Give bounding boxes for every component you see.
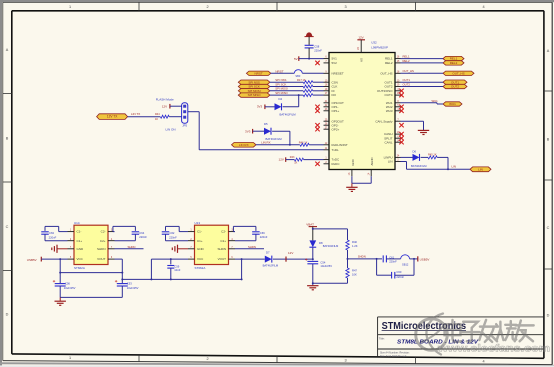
svg-text:C62: C62 — [170, 231, 175, 235]
svg-text:USB5V: USB5V — [27, 258, 37, 262]
svg-text:GND: GND — [351, 159, 355, 165]
svg-text:GND: GND — [197, 247, 205, 251]
svg-text:C59: C59 — [174, 264, 179, 268]
svg-text:SB12: SB12 — [402, 262, 409, 266]
svg-text:CAN_Supply: CAN_Supply — [375, 119, 393, 123]
svg-text:OUT_HS: OUT_HS — [452, 71, 464, 75]
svg-text:ST662A: ST662A — [74, 266, 85, 270]
svg-text:U32: U32 — [371, 41, 377, 45]
svg-text:L99PM62XP: L99PM62XP — [371, 45, 388, 49]
svg-text:C60: C60 — [396, 270, 401, 274]
svg-text:NRESET: NRESET — [332, 71, 344, 75]
svg-text:FLASH Mode: FLASH Mode — [156, 98, 174, 102]
svg-text:B: B — [547, 138, 550, 142]
svg-text:LIN: LIN — [478, 167, 483, 171]
svg-text:U14: U14 — [74, 221, 80, 225]
svg-text:A: A — [6, 48, 9, 52]
svg-text:C2-: C2- — [221, 230, 226, 234]
svg-text:2: 2 — [206, 5, 208, 9]
svg-text:ST662A: ST662A — [195, 266, 206, 270]
svg-text:C: C — [547, 226, 550, 230]
svg-text:C54: C54 — [320, 260, 325, 264]
svg-text:JP5: JP5 — [182, 123, 187, 127]
svg-text:5V2: 5V2 — [332, 61, 338, 65]
svg-text:4: 4 — [482, 359, 484, 363]
svg-text:WU1: WU1 — [449, 102, 456, 106]
svg-text:SHDN: SHDN — [128, 245, 136, 249]
svg-text:OUT2: OUT2 — [403, 82, 411, 86]
svg-text:OUT_HS: OUT_HS — [380, 71, 392, 75]
svg-text:B: B — [6, 137, 9, 141]
svg-text:1: 1 — [69, 5, 71, 9]
svg-text:USB5V: USB5V — [420, 257, 430, 261]
svg-text:220nF: 220nF — [314, 48, 322, 52]
svg-text:SHDN: SHDN — [358, 254, 366, 258]
svg-text:10uF/25V: 10uF/25V — [320, 264, 332, 268]
svg-text:1K: 1K — [294, 161, 297, 164]
svg-text:RxDC: RxDC — [332, 162, 341, 166]
svg-text:1K: 1K — [155, 118, 158, 121]
svg-text:C66: C66 — [260, 231, 265, 235]
svg-text:www.elecfans.com: www.elecfans.com — [437, 344, 551, 355]
svg-text:OUT_HS: OUT_HS — [403, 69, 414, 73]
svg-text:BAT46JFILM: BAT46JFILM — [280, 113, 297, 117]
svg-text:R46 1K: R46 1K — [299, 141, 308, 145]
svg-text:R40: R40 — [352, 240, 357, 244]
svg-text:REL2: REL2 — [385, 61, 393, 65]
svg-text:C2+: C2+ — [220, 239, 226, 243]
svg-text:LIN ON: LIN ON — [166, 127, 176, 131]
svg-text:10uF/25V: 10uF/25V — [127, 286, 139, 290]
svg-text:DO: DO — [332, 93, 337, 97]
svg-text:12V: 12V — [279, 157, 284, 161]
svg-text:R44: R44 — [155, 113, 160, 116]
svg-text:C2+: C2+ — [100, 239, 106, 243]
svg-text:C56: C56 — [65, 282, 70, 286]
svg-text:SHDN: SHDN — [248, 245, 256, 249]
svg-text:D7: D7 — [266, 250, 270, 254]
svg-text:VCC: VCC — [77, 257, 84, 261]
svg-text:D5: D5 — [264, 122, 268, 126]
svg-text:220nF: 220nF — [260, 235, 268, 239]
svg-text:R43: R43 — [290, 156, 295, 159]
svg-text:2: 2 — [206, 357, 208, 361]
svg-text:10K: 10K — [352, 272, 357, 276]
svg-text:5V: 5V — [294, 57, 298, 61]
svg-text:3: 3 — [344, 5, 346, 9]
svg-text:NRST: NRST — [275, 69, 283, 73]
svg-text:OUT4: OUT4 — [384, 93, 392, 97]
svg-text:SB3: SB3 — [295, 74, 300, 78]
svg-text:LIN: LIN — [388, 160, 393, 164]
svg-text:C63: C63 — [49, 231, 54, 235]
svg-text:BAT46JFILM: BAT46JFILM — [411, 164, 427, 168]
svg-text:C1-: C1- — [197, 230, 202, 234]
svg-text:C53: C53 — [127, 282, 132, 286]
svg-text:C2-: C2- — [101, 230, 106, 234]
svg-text:VCC: VCC — [197, 257, 204, 261]
svg-text:220nF: 220nF — [389, 260, 397, 264]
svg-text:VS: VS — [359, 58, 363, 62]
svg-text:R47: R47 — [352, 269, 357, 273]
svg-text:TxDL: TxDL — [332, 148, 339, 152]
svg-text:LIN RX: LIN RX — [261, 141, 270, 145]
svg-text:12V: 12V — [358, 36, 363, 40]
svg-text:C: C — [6, 225, 9, 229]
svg-text:1.2K: 1.2K — [352, 244, 358, 248]
svg-text:220nF: 220nF — [139, 235, 147, 239]
svg-text:SHDN: SHDN — [97, 247, 106, 251]
svg-text:D6: D6 — [413, 150, 417, 154]
svg-text:C64: C64 — [139, 231, 144, 235]
svg-text:12V: 12V — [162, 105, 167, 109]
svg-text:Size A4 Number:: Size A4 Number: Revision: — [380, 351, 410, 354]
svg-text:12V TX: 12V TX — [107, 115, 118, 119]
svg-text:220nF: 220nF — [49, 235, 57, 239]
svg-text:10uF/25V: 10uF/25V — [64, 286, 76, 290]
svg-text:REL2: REL2 — [450, 61, 458, 65]
svg-text:220nF: 220nF — [396, 275, 404, 279]
svg-text:D8: D8 — [319, 241, 323, 245]
svg-text:4: 4 — [482, 5, 484, 9]
svg-text:LIN RX: LIN RX — [239, 143, 249, 147]
svg-text:R17 1K: R17 1K — [297, 78, 306, 82]
svg-text:OP2+: OP2+ — [332, 127, 340, 131]
svg-text:VOUT: VOUT — [97, 257, 106, 261]
svg-text:C1+: C1+ — [77, 239, 83, 243]
svg-text:C58: C58 — [314, 45, 319, 49]
svg-text:AGND: AGND — [370, 157, 374, 165]
svg-text:VOUT: VOUT — [218, 257, 227, 261]
svg-text:BAT46JFILM: BAT46JFILM — [323, 244, 339, 248]
svg-text:U13: U13 — [195, 221, 201, 225]
svg-text:CANL: CANL — [384, 140, 392, 144]
svg-text:WU1: WU1 — [432, 99, 439, 103]
svg-text:SPI MISO: SPI MISO — [248, 93, 262, 97]
svg-text:REL2: REL2 — [403, 59, 410, 63]
svg-text:3V3: 3V3 — [245, 129, 251, 133]
svg-text:LIN TX: LIN TX — [131, 112, 140, 116]
svg-text:BAT46JFILM: BAT46JFILM — [263, 264, 279, 268]
svg-text:A: A — [547, 49, 550, 53]
svg-text:10nF: 10nF — [174, 268, 180, 272]
svg-text:Date: 8-Jul-2010 Sheet: Date: 8-Jul-2010 Sheet of — [380, 355, 407, 358]
svg-text:SPI MISO: SPI MISO — [275, 91, 288, 95]
svg-text:SHDN: SHDN — [217, 247, 226, 251]
svg-text:D: D — [547, 314, 550, 318]
svg-text:C1-: C1- — [77, 230, 82, 234]
svg-text:3V3: 3V3 — [257, 105, 263, 109]
svg-text:D: D — [6, 313, 9, 317]
svg-text:1: 1 — [69, 356, 71, 360]
svg-text:220nF: 220nF — [169, 235, 177, 239]
svg-text:C1+: C1+ — [197, 239, 203, 243]
svg-text:GND: GND — [77, 247, 85, 251]
svg-text:WU3: WU3 — [386, 109, 393, 113]
svg-text:NRST: NRST — [255, 71, 263, 75]
svg-text:D4: D4 — [279, 97, 283, 101]
svg-text:RxDLIN/INT: RxDLIN/INT — [332, 143, 348, 147]
svg-text:Title:: Title: — [379, 337, 385, 341]
svg-text:OP1+: OP1+ — [332, 109, 340, 113]
svg-text:3: 3 — [344, 358, 346, 362]
svg-text:OUT2: OUT2 — [451, 85, 459, 89]
svg-text:LIN: LIN — [452, 164, 457, 168]
svg-text:VBAT: VBAT — [306, 223, 314, 227]
svg-text:12V: 12V — [288, 251, 293, 255]
